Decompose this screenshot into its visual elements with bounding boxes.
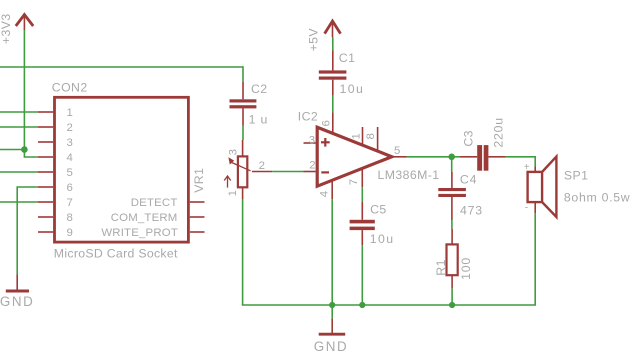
wire IC2 pin7 to C5	[361, 187, 363, 202]
wire junction to pin 4	[24, 150, 38, 158]
svg-text:C2: C2	[251, 82, 268, 96]
svg-text:+5V: +5V	[306, 28, 320, 52]
wire junction down to C4	[451, 157, 453, 172]
wire speaker to ground rail	[534, 213, 536, 305]
node output junction	[448, 154, 455, 161]
svg-text:WRITE_PROT: WRITE_PROT	[101, 227, 178, 239]
svg-text:8: 8	[365, 133, 377, 139]
wire +3V3 down to junction	[23, 30, 25, 150]
wire VR1 wiper to IC2	[272, 171, 303, 173]
svg-text:1: 1	[227, 190, 239, 196]
svg-text:8: 8	[67, 212, 73, 224]
capacitor C3 polarized	[460, 145, 506, 171]
svg-text:7: 7	[67, 197, 73, 209]
svg-text:100: 100	[459, 257, 473, 280]
wire C2 to VR1	[242, 126, 244, 141]
svg-text:473: 473	[460, 203, 483, 217]
wire +3V3 horizontal rail to C2	[0, 66, 243, 68]
svg-text:+3V3: +3V3	[0, 13, 13, 44]
svg-text:MicroSD Card Socket: MicroSD Card Socket	[54, 246, 178, 260]
svg-text:+: +	[524, 162, 530, 173]
wire VR1 pin1 down to rail	[242, 200, 244, 305]
svg-text:2: 2	[67, 122, 73, 134]
wire R1 to ground rail	[451, 288, 453, 305]
wire IC2 output to junction	[407, 156, 452, 158]
svg-text:5: 5	[67, 167, 73, 179]
pin numbers 1-9	[67, 107, 73, 239]
capacitor C5	[350, 202, 375, 245]
svg-text:4: 4	[318, 191, 330, 197]
svg-text:9: 9	[67, 227, 73, 239]
svg-text:COM_TERM: COM_TERM	[111, 212, 178, 224]
supply +5V	[325, 21, 341, 37]
wire C3 to speaker	[506, 157, 535, 167]
wire pin5	[0, 171, 38, 173]
svg-text:220u: 220u	[492, 117, 506, 148]
ground GND center	[319, 319, 346, 335]
wire rail to GND symbol	[331, 305, 333, 319]
wire IC2 pin4 to ground rail	[331, 199, 333, 305]
svg-text:IC2: IC2	[298, 110, 318, 124]
svg-text:VR1: VR1	[192, 168, 206, 193]
capacitor C2	[230, 82, 257, 126]
svg-text:LM386M-1: LM386M-1	[378, 168, 440, 182]
CON2 pin stubs right DETECT/COM_TERM/WRITE_PROT	[190, 202, 205, 232]
svg-text:C1: C1	[339, 51, 356, 65]
op-amp IC2 LM386	[304, 112, 407, 199]
svg-text:3: 3	[227, 149, 239, 155]
wire pin6 to GND	[17, 187, 38, 275]
svg-text:8ohm 0.5w: 8ohm 0.5w	[564, 190, 630, 204]
svg-text:C3: C3	[461, 130, 475, 147]
wire +5V to C1	[332, 37, 334, 50]
resistor R1	[447, 229, 458, 289]
wire pin2	[0, 126, 38, 128]
node rail junction C5	[359, 302, 365, 308]
svg-text:C5: C5	[370, 202, 387, 216]
capacitor C1	[319, 51, 347, 96]
svg-text:2: 2	[309, 159, 315, 171]
wire ground rail	[242, 304, 536, 306]
svg-text:DETECT: DETECT	[131, 197, 178, 209]
wire into junction from left edge	[0, 149, 24, 151]
wire pin1	[0, 111, 38, 113]
svg-text:4: 4	[67, 152, 73, 164]
svg-text:7: 7	[348, 179, 360, 185]
svg-text:GND: GND	[0, 294, 34, 309]
wire C1 to IC2 pin6	[332, 96, 334, 113]
svg-text:5: 5	[394, 145, 400, 157]
wire pin7	[0, 201, 38, 203]
svg-text:GND: GND	[314, 339, 349, 354]
wire C4 to R1	[451, 220, 453, 229]
svg-text:R1: R1	[434, 259, 448, 276]
potentiometer VR1	[224, 140, 272, 200]
svg-text:1: 1	[351, 133, 363, 139]
svg-text:3: 3	[67, 137, 73, 149]
svg-text:10u: 10u	[370, 232, 395, 246]
svg-text:10u: 10u	[340, 82, 365, 96]
wire junction to C3	[452, 156, 460, 158]
ground GND left	[6, 275, 29, 292]
node junction pin4 net	[21, 146, 28, 153]
svg-text:C4: C4	[460, 173, 477, 187]
svg-text:2: 2	[259, 160, 265, 172]
connector CON2 box	[55, 97, 189, 242]
svg-text:-: -	[525, 203, 528, 214]
svg-text:3: 3	[309, 135, 315, 147]
capacitor C4	[438, 172, 466, 220]
svg-text:6: 6	[67, 182, 73, 194]
svg-text:6: 6	[321, 120, 333, 126]
node rail junction R1	[449, 302, 455, 308]
supply +3V3	[16, 15, 33, 30]
CON2 pin stubs left 1-9	[38, 112, 53, 232]
svg-text:1: 1	[67, 107, 73, 119]
svg-text:1 u: 1 u	[249, 112, 269, 126]
svg-text:CON2: CON2	[52, 80, 88, 94]
wire C2 branch down	[242, 66, 244, 82]
node rail junction pin4	[329, 302, 335, 308]
speaker SP1	[528, 157, 557, 218]
wire C5 to ground rail	[361, 245, 363, 305]
svg-text:SP1: SP1	[564, 168, 588, 182]
